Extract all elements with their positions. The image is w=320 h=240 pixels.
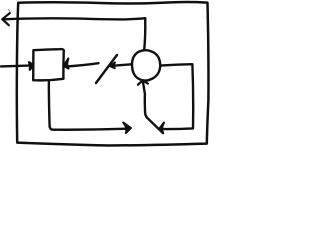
wire: from block right side toward circle <box>65 63 99 66</box>
arrowhead: mid-line arrow pointing left toward block <box>110 62 115 68</box>
wire: diagonal from bottom junction up into circle bottom <box>143 81 163 133</box>
arrowhead: pointing left at bottom-right junction <box>159 123 164 133</box>
wire: input line entering from left edge into block <box>1 64 29 67</box>
wire: short segment from mid arrow to circle left <box>112 64 133 66</box>
arrowhead: output arrow pointing left (top-left, exits border) <box>2 13 10 25</box>
arrowhead: into block left side <box>29 62 34 70</box>
summing junction circle <box>132 50 160 80</box>
block (square box) <box>33 49 64 80</box>
arrowhead: pointing up into circle bottom <box>138 80 148 84</box>
arrowhead: pointing right at bottom junction <box>123 123 131 134</box>
arrowhead: into block right side <box>64 58 69 68</box>
stray pen speck near top-left <box>8 10 9 12</box>
wire: from block bottom, down and right along inner bottom <box>49 81 128 130</box>
wire: vertical drop from top line into summing junction top <box>144 18 145 50</box>
wire: overdrawn diagonal stroke of mid arrow <box>96 55 117 83</box>
outer boundary box <box>17 2 209 145</box>
wire: top feedback line from summing junction top to output arrow <box>4 18 146 19</box>
wire: from circle right, down right side, to left-pointing arrow <box>160 64 193 129</box>
